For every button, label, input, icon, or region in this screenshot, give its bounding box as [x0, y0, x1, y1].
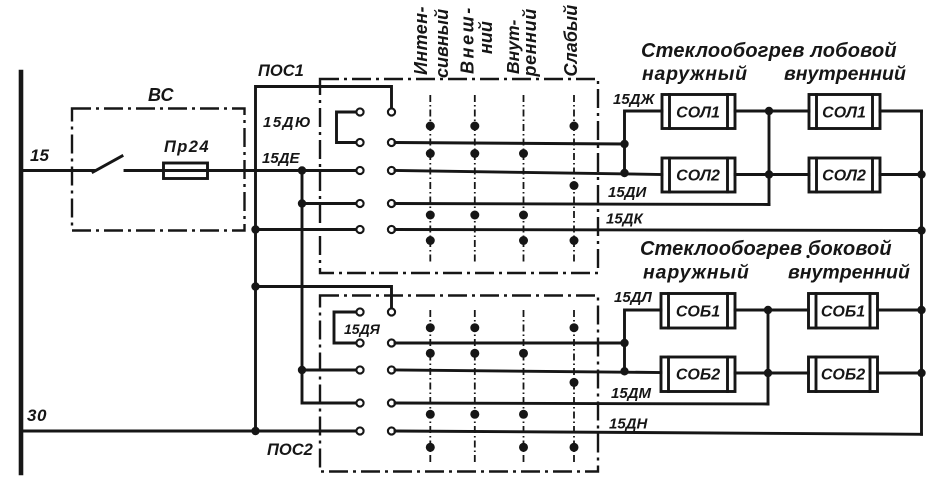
- junction 15ДЕ wire / riser: [298, 166, 306, 174]
- svg-text:15ДИ: 15ДИ: [608, 184, 648, 201]
- junction 15ДЛ: [620, 339, 628, 347]
- wire СОБ1 to bus: [878, 309, 922, 312]
- scan speck (period before боковой): [806, 255, 809, 258]
- wire СОБ1 link: [735, 309, 809, 312]
- position line Слабый ПОС2: [573, 310, 575, 463]
- wire ПОС1 row4 output 15ДИ: [395, 204, 769, 205]
- wire 15ДМ mid riser: [767, 310, 770, 404]
- svg-text:Слабый: Слабый: [561, 5, 581, 77]
- junction bus СОБ2: [917, 369, 925, 377]
- svg-text:Пр24: Пр24: [164, 138, 210, 156]
- svg-text:ВС: ВС: [148, 85, 175, 105]
- wire ПОС1 row2 output 15ДЖ: [395, 143, 625, 145]
- wire СОБ2 to bus: [878, 372, 922, 375]
- wire СОБ2 link: [735, 372, 809, 375]
- contact ПОС1 L3: [356, 167, 363, 174]
- wire 15ДЖ/15ДИ tie: [623, 144, 626, 173]
- contact dots ПОС2 row5: [426, 443, 435, 452]
- position line Внешний ПОС1: [474, 95, 476, 262]
- junction mid 15ДМ bottom: [764, 369, 772, 377]
- contact ПОС1 L2: [356, 139, 363, 146]
- svg-text:ний: ний: [476, 21, 496, 54]
- wire СОЛ2 link: [735, 173, 809, 176]
- svg-text:15ДЖ: 15ДЖ: [613, 91, 656, 108]
- bus right return: [920, 111, 923, 434]
- wire net 15ДЕ riser (x=302) down to ПОС2: [302, 171, 357, 404]
- heater СОЛ1 наружный: [662, 95, 735, 129]
- junction riser / ПОС2 row3: [298, 366, 306, 374]
- box ВС (switch enclosure, dash-dot): [72, 109, 245, 231]
- junction riser / ПОС1 row4: [298, 199, 306, 207]
- svg-text:Интен-: Интен-: [411, 6, 431, 75]
- junction bus 15ДК: [917, 226, 925, 234]
- wire branch to СОБ1: [625, 310, 662, 343]
- svg-text:30: 30: [27, 406, 47, 425]
- contact ПОС1 L1: [356, 108, 363, 115]
- svg-text:Стеклообогрев боковой: Стеклообогрев боковой: [640, 238, 892, 260]
- junction 15ДИ stub: [620, 169, 628, 177]
- svg-text:сивный: сивный: [432, 9, 452, 78]
- junction mid 15ДИ bottom: [765, 170, 773, 178]
- wire 15ДИ mid riser: [768, 111, 771, 205]
- svg-text:ренний: ренний: [520, 8, 540, 77]
- switch ВС contact blade: [93, 156, 122, 172]
- wire СОЛ1 link: [735, 110, 809, 113]
- contact ПОС2 L2: [356, 339, 363, 346]
- contact dot ПОС2 row3: [570, 378, 579, 387]
- wire 15 from bus to switch: [21, 169, 95, 172]
- svg-text:СОЛ2: СОЛ2: [822, 168, 866, 185]
- heater СОБ2 наружный: [661, 357, 735, 392]
- position line Интенсивный ПОС2: [429, 310, 431, 463]
- wire 15ДЛ/row3 tie: [623, 343, 626, 371]
- contact ПОС1 L4: [356, 200, 363, 207]
- svg-text:СОБ2: СОБ2: [676, 367, 720, 384]
- svg-text:СОЛ1: СОЛ1: [676, 105, 720, 122]
- heater СОЛ2 внутренний: [809, 158, 880, 192]
- wire ПОС1 row5 output 15ДК: [395, 230, 922, 231]
- junction 30-riser / ПОС1 row5 wire: [251, 225, 259, 233]
- junction row3 stub: [620, 367, 628, 375]
- position line Интенсивный ПОС1: [429, 95, 431, 262]
- box ПОС1 (switch 1, dash-dot): [320, 79, 598, 273]
- contact ПОС2 R2: [388, 339, 395, 346]
- fuse Пр24: [164, 163, 208, 179]
- heater СОБ1 внутренний: [809, 294, 878, 329]
- wire СОЛ1 to bus: [880, 110, 922, 113]
- svg-text:15ДЮ: 15ДЮ: [263, 114, 312, 131]
- contact ПОС2 R4: [388, 399, 395, 406]
- svg-text:внутренний: внутренний: [788, 262, 910, 284]
- svg-text:15ДН: 15ДН: [609, 416, 649, 433]
- junction 30-riser / bus 30 wire: [251, 427, 259, 435]
- wire ПОС1 row4 feed: [302, 202, 357, 205]
- wire net 30 riser (x=255.5) with top feed to ПОС1 common: [256, 87, 392, 432]
- svg-text:ПОС2: ПОС2: [267, 441, 313, 459]
- contact ПОС2 R3: [388, 366, 395, 373]
- wire ПОС1 row3 output 15ДИ stub: [395, 171, 662, 175]
- contact ПОС1 R2: [388, 139, 395, 146]
- junction bus СОБ1: [917, 306, 925, 314]
- svg-text:15ДМ: 15ДМ: [611, 385, 652, 402]
- heater СОБ1 наружный: [661, 294, 735, 329]
- contact dots ПОС1 row2: [426, 149, 435, 158]
- contact dots ПОС2 row2: [426, 349, 435, 358]
- svg-text:наружный: наружный: [643, 262, 750, 284]
- junction 30-riser / ПОС2 common feed: [251, 282, 259, 290]
- wire ПОС2 common feed: [256, 287, 392, 310]
- contact dots ПОС1 row1: [426, 122, 435, 131]
- wire ПОС1 row5 feed: [256, 228, 357, 231]
- svg-text:СОБ2: СОБ2: [821, 367, 865, 384]
- wire ПОС2 row5 output 15ДН: [395, 431, 922, 434]
- jumper bracket ПОС1 rows1-2: [337, 112, 357, 143]
- contact ПОС1 L5: [356, 226, 363, 233]
- svg-text:15ДЕ: 15ДЕ: [262, 150, 301, 167]
- contact dots ПОС2 row1: [426, 323, 435, 332]
- svg-text:наружный: наружный: [642, 63, 748, 85]
- contact ПОС1 R5: [388, 226, 395, 233]
- svg-text:15ДЯ: 15ДЯ: [344, 321, 381, 337]
- heater СОЛ2 наружный: [662, 158, 735, 192]
- svg-text:15: 15: [30, 146, 49, 165]
- contact ПОС2 L1: [356, 308, 363, 315]
- contact dots ПОС1 row5: [426, 236, 435, 245]
- wire ПОС2 row3 feed: [302, 369, 357, 372]
- svg-text:15ДК: 15ДК: [606, 211, 645, 228]
- jumper bracket ПОС2 rows1-2: [334, 312, 357, 343]
- junction 15ДЖ: [620, 140, 628, 148]
- position line Слабый ПОС1: [573, 95, 575, 262]
- svg-text:Стеклообогрев лобовой: Стеклообогрев лобовой: [641, 40, 897, 62]
- contact ПОС2 L3: [356, 366, 363, 373]
- junction bus СОЛ2: [917, 170, 925, 178]
- contact ПОС1 R1: [388, 108, 395, 115]
- svg-text:СОБ1: СОБ1: [676, 304, 720, 321]
- contact ПОС1 R4: [388, 200, 395, 207]
- position line Внутренний ПОС2: [523, 310, 525, 463]
- contact dots ПОС2 row4: [426, 410, 435, 419]
- wire ПОС2 row2 output 15ДЛ: [395, 342, 625, 345]
- svg-text:ПОС1: ПОС1: [258, 62, 304, 80]
- contact ПОС2 R1: [388, 308, 395, 315]
- contact ПОС2 R5: [388, 427, 395, 434]
- position line Внутренний ПОС1: [523, 95, 525, 262]
- box ПОС2 (switch 2, dash-dot): [320, 296, 598, 472]
- wire branch to СОЛ1: [625, 111, 663, 144]
- svg-text:СОЛ1: СОЛ1: [822, 105, 866, 122]
- contact ПОС2 L4: [356, 399, 363, 406]
- heater СОБ2 внутренний: [809, 357, 878, 392]
- wire 30 from bus to ПОС2 row5: [21, 430, 357, 433]
- junction mid 15ДМ top: [764, 306, 772, 314]
- contact ПОС1 R3: [388, 167, 395, 174]
- contact dots ПОС1 row4: [426, 211, 435, 220]
- position line Внешний ПОС2: [474, 310, 476, 463]
- svg-text:СОБ1: СОБ1: [821, 304, 865, 321]
- heater СОЛ1 внутренний: [809, 95, 880, 129]
- svg-text:СОЛ2: СОЛ2: [676, 168, 720, 185]
- contact dot ПОС1 row3: [570, 181, 579, 190]
- contact ПОС2 L5: [356, 427, 363, 434]
- svg-text:внутренний: внутренний: [784, 63, 906, 85]
- wire from switch to fuse and on to ПОС1 pin 15ДЕ: [125, 169, 357, 172]
- bus line 15/30 (left vertical feeder): [19, 72, 24, 473]
- wire ПОС2 row3 output stub: [395, 370, 661, 373]
- junction mid 15ДИ top: [765, 107, 773, 115]
- svg-text:15ДЛ: 15ДЛ: [614, 289, 653, 306]
- wire СОЛ2 to bus: [880, 173, 922, 176]
- wire ПОС2 row4 output 15ДМ: [395, 403, 768, 404]
- svg-text:Внеш-: Внеш-: [458, 5, 478, 74]
